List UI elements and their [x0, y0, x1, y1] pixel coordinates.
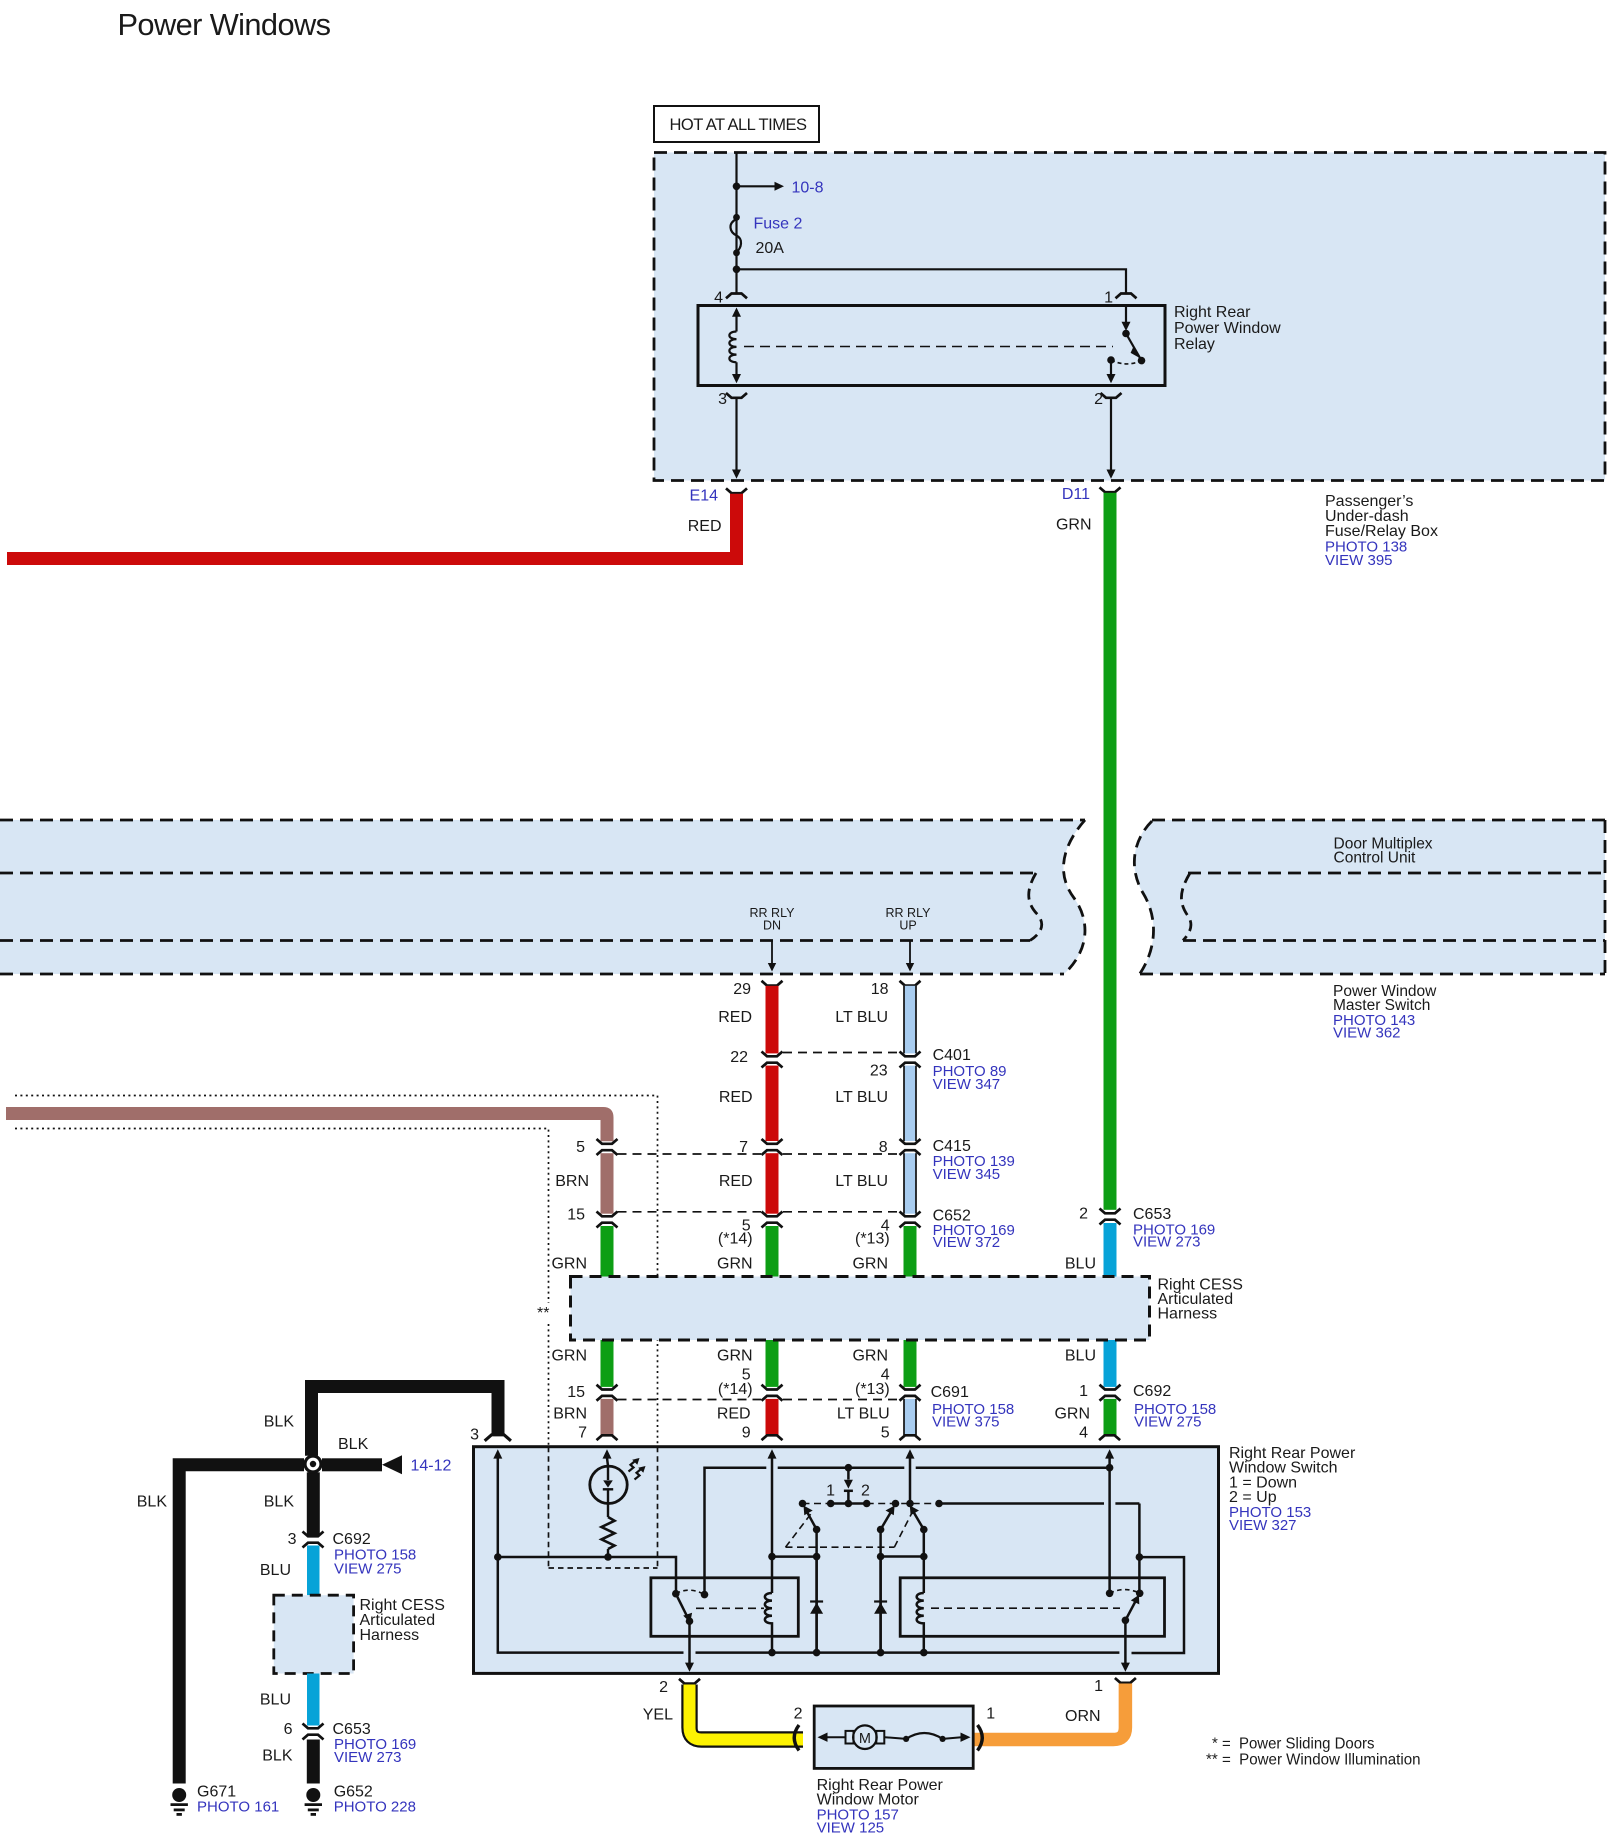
junction diode D2 top — [877, 1553, 885, 1561]
svg-text:29: 29 — [733, 981, 751, 998]
node rocker link right — [863, 1500, 871, 1508]
svg-text:RED: RED — [719, 1173, 753, 1190]
power window illumination dotted outline ** — [15, 1096, 658, 1569]
small Right CESS Articulated Harness box — [274, 1595, 354, 1673]
wire BLK thick: top run to switch pin 3 — [305, 1380, 505, 1456]
svg-text:7: 7 — [739, 1139, 748, 1156]
wire branch to pin 1 — [737, 269, 1127, 293]
up arrows at the five pins — [493, 1449, 1139, 1671]
svg-text:VIEW 275: VIEW 275 — [334, 1561, 402, 1578]
motor M1 internals — [818, 1725, 971, 1749]
wire to 10-8 arrow — [737, 185, 775, 187]
svg-text:BRN: BRN — [555, 1173, 589, 1190]
svg-text:14-12: 14-12 — [411, 1458, 452, 1475]
contact released-position dashed arcs — [676, 1590, 705, 1594]
svg-text:LT BLU: LT BLU — [835, 1009, 888, 1026]
svg-text:UP: UP — [899, 919, 916, 933]
node up-contact common — [1136, 1590, 1144, 1598]
svg-text:BLU: BLU — [260, 1692, 291, 1709]
wire RED column segments — [766, 986, 779, 1435]
rocker bar solid part — [831, 1502, 867, 1505]
lamp (illumination) — [590, 1458, 646, 1517]
svg-text:LT BLU: LT BLU — [835, 1173, 888, 1190]
right relay contact arm — [1125, 1598, 1137, 1621]
svg-text:Power Window: Power Window — [1174, 320, 1281, 337]
node down-contact output — [686, 1617, 694, 1625]
svg-text:BLU: BLU — [260, 1562, 291, 1579]
segment diode2 to right coil — [881, 1555, 924, 1558]
pin1 down arrow — [1121, 1663, 1130, 1672]
pin 2 (switch bottom) — [679, 1679, 700, 1684]
junction rocker common on top bus — [845, 1464, 853, 1472]
junction pin4 on top bus — [1106, 1464, 1114, 1472]
terminal E14 — [726, 488, 747, 493]
junction pin3 bus / lamp branch — [494, 1553, 502, 1561]
connector C401 — [730, 1047, 1006, 1093]
svg-text:1: 1 — [1079, 1383, 1088, 1400]
ground G671 — [171, 1784, 280, 1816]
junction down-coil top — [768, 1553, 776, 1561]
rocker common stem — [847, 1468, 850, 1480]
svg-text:GRN: GRN — [717, 1256, 753, 1273]
svg-text:GRN: GRN — [852, 1348, 888, 1365]
svg-text:Fuse 2: Fuse 2 — [754, 216, 803, 233]
svg-text:VIEW 347: VIEW 347 — [933, 1076, 1001, 1093]
wire BLU below small harness — [307, 1674, 320, 1726]
junction resistor to lamp bus — [604, 1553, 612, 1561]
right contact box (up relay) — [900, 1578, 1164, 1637]
svg-text:18: 18 — [871, 981, 889, 998]
pin 7 branch to lamp — [607, 1458, 608, 1466]
left relay contact arm — [676, 1594, 690, 1622]
svg-text:VIEW 375: VIEW 375 — [932, 1414, 1000, 1431]
svg-text:(*14): (*14) — [718, 1231, 753, 1248]
connector C653 (right green column) — [1079, 1206, 1215, 1251]
pin 3 — [726, 393, 747, 398]
svg-text:C401: C401 — [933, 1047, 971, 1064]
switch box border — [474, 1447, 1219, 1674]
wire BRN thick from left edge — [6, 1107, 614, 1141]
svg-text:M: M — [859, 1731, 871, 1747]
svg-text:2: 2 — [1079, 1206, 1088, 1223]
pin 4 branch (green column) — [1108, 1458, 1111, 1593]
harness box — [571, 1277, 1150, 1341]
svg-text:BLU: BLU — [1065, 1256, 1096, 1273]
svg-text:(*13): (*13) — [855, 1231, 890, 1248]
top horizontal bus — [705, 1468, 767, 1595]
svg-text:VIEW 125: VIEW 125 — [817, 1820, 885, 1837]
svg-text:3: 3 — [288, 1531, 297, 1548]
HOT AT ALL TIMES box — [654, 106, 819, 142]
wire ORN to motor — [975, 1684, 1126, 1740]
svg-text:GRN: GRN — [852, 1256, 888, 1273]
svg-text:8: 8 — [879, 1139, 888, 1156]
wire from box top to fuse — [735, 153, 737, 294]
svg-text:Relay: Relay — [1174, 336, 1215, 353]
junction up-contact feed — [1136, 1553, 1144, 1561]
svg-text:VIEW 372: VIEW 372 — [933, 1234, 1001, 1251]
junction pin5 on rocker line — [906, 1500, 914, 1508]
svg-text:DN: DN — [763, 919, 781, 933]
svg-text:3: 3 — [718, 391, 727, 408]
svg-text:2: 2 — [794, 1706, 803, 1723]
diode 2 line — [879, 1557, 882, 1653]
left contact box (down relay) — [651, 1578, 798, 1637]
svg-text:3: 3 — [470, 1427, 479, 1444]
junction up-coil on ground bus — [920, 1649, 928, 1657]
svg-text:5: 5 — [576, 1139, 585, 1156]
svg-text:Harness: Harness — [360, 1627, 420, 1644]
pin glyphs at switch box top — [485, 1435, 511, 1441]
svg-text:(*13): (*13) — [855, 1381, 890, 1398]
node rocker contact 1 (down) — [799, 1500, 807, 1508]
svg-text:1: 1 — [826, 1483, 835, 1500]
svg-text:LT BLU: LT BLU — [835, 1089, 888, 1106]
svg-text:* = Power Sliding Doors: * = Power Sliding Doors — [1212, 1736, 1375, 1753]
svg-text:HOT AT ALL TIMES: HOT AT ALL TIMES — [670, 116, 808, 134]
svg-text:23: 23 — [870, 1063, 888, 1080]
lamp horizontal branch — [498, 1557, 676, 1594]
pin 9 branch (red column through coil) — [771, 1458, 774, 1593]
wire LT BLU column segments — [904, 986, 917, 1435]
diode 1 — [810, 1602, 823, 1614]
svg-text:10-8: 10-8 — [792, 180, 824, 197]
coil left (down relay) — [765, 1593, 772, 1653]
segment red-coil to diode1 — [772, 1555, 817, 1558]
wire GRN thick from D11 — [1104, 493, 1117, 1210]
svg-text:GRN: GRN — [1054, 1406, 1090, 1423]
terminal D11 — [1100, 487, 1121, 492]
connector C415 — [576, 1138, 1015, 1183]
svg-text:VIEW 395: VIEW 395 — [1325, 552, 1393, 569]
svg-text:5: 5 — [881, 1425, 890, 1442]
pin 18 — [900, 981, 921, 986]
wire BLK stub to 14-12 arrow — [322, 1458, 382, 1471]
svg-text:1: 1 — [986, 1706, 995, 1723]
connector C692 (right green column) — [1079, 1383, 1216, 1431]
svg-text:20A: 20A — [756, 240, 785, 257]
pin2 down arrow — [685, 1663, 694, 1672]
svg-text:VIEW 362: VIEW 362 — [1333, 1025, 1401, 1042]
mid contact arm vertical — [879, 1530, 882, 1653]
coil right (up relay) — [917, 1593, 924, 1653]
relay actuation dashed line — [744, 346, 1113, 348]
junction diode D1 top — [813, 1553, 821, 1561]
svg-text:Power Windows: Power Windows — [118, 7, 332, 42]
svg-text:Control Unit: Control Unit — [1334, 850, 1417, 867]
svg-text:C653: C653 — [1133, 1206, 1171, 1223]
motor box — [814, 1706, 973, 1768]
wire BLU to small harness — [307, 1546, 320, 1596]
node up-contact output — [1122, 1617, 1130, 1625]
svg-text:C692: C692 — [333, 1531, 371, 1548]
svg-text:ORN: ORN — [1065, 1708, 1101, 1725]
connector C653 pin 6 — [303, 1724, 324, 1729]
svg-text:1: 1 — [1094, 1678, 1103, 1695]
svg-text:E14: E14 — [690, 488, 719, 505]
ground G652 — [305, 1784, 416, 1816]
node split to relay pins 4 and 1 — [733, 266, 741, 274]
junction dots in switch — [494, 1464, 1143, 1657]
svg-text:VIEW 273: VIEW 273 — [334, 1749, 402, 1766]
junction diode D1 on ground bus — [813, 1649, 821, 1657]
node down-contact NC — [701, 1591, 709, 1599]
svg-text:BLK: BLK — [137, 1494, 168, 1511]
svg-text:Fuse/Relay Box: Fuse/Relay Box — [1325, 523, 1438, 540]
connector C692 pin 3 — [303, 1532, 324, 1537]
pin 4 — [726, 294, 747, 299]
svg-text:GRN: GRN — [551, 1256, 587, 1273]
svg-text:** = Power Window Illuminatio: ** = Power Window Illumination — [1206, 1752, 1421, 1769]
door multiplex band right part — [1134, 820, 1605, 974]
svg-text:PHOTO 161: PHOTO 161 — [197, 1799, 279, 1816]
node down-contact common — [672, 1590, 680, 1598]
svg-text:2: 2 — [659, 1679, 668, 1696]
switch box fill — [474, 1447, 1219, 1674]
fuse F2 20A — [733, 214, 740, 221]
svg-text:RED: RED — [718, 1009, 752, 1026]
diode 2 — [874, 1602, 887, 1614]
svg-text:C691: C691 — [931, 1384, 969, 1401]
svg-text:7: 7 — [578, 1425, 587, 1442]
node up-contact NC — [1106, 1590, 1114, 1598]
pin 1 — [1116, 294, 1137, 299]
svg-text:15: 15 — [567, 1207, 585, 1224]
pin 1 output — [1124, 1620, 1127, 1668]
svg-text:15: 15 — [567, 1384, 585, 1401]
left contact arm vertical — [815, 1530, 818, 1653]
right contact common riser — [1138, 1504, 1141, 1594]
node rocker center — [845, 1500, 853, 1508]
rocker dashed linkage — [786, 1504, 940, 1548]
connector C691 — [567, 1367, 1014, 1431]
svg-text:GRN: GRN — [717, 1348, 753, 1365]
node rocker contact 2 (up) — [892, 1500, 900, 1508]
svg-text:2: 2 — [1094, 391, 1103, 408]
svg-text:BRN: BRN — [553, 1406, 587, 1423]
wire BLK left branch to G671 — [173, 1458, 304, 1783]
door multiplex band left part — [0, 820, 1085, 974]
svg-text:4: 4 — [1079, 1425, 1088, 1442]
node down-arm bottom — [813, 1526, 821, 1534]
svg-text:LT BLU: LT BLU — [837, 1406, 890, 1423]
svg-text:Right Rear: Right Rear — [1174, 304, 1251, 321]
svg-text:GRN: GRN — [551, 1348, 587, 1365]
junction diode D2 on ground bus — [877, 1649, 885, 1657]
node up-arm2 bottom — [920, 1526, 928, 1534]
junction node (ring) — [305, 1456, 321, 1472]
pin 2 — [1101, 393, 1122, 398]
junction up-coil top — [920, 1553, 928, 1561]
junction down-coil on ground bus — [768, 1649, 776, 1657]
node rocker feed right — [935, 1500, 943, 1508]
svg-text:22: 22 — [730, 1049, 748, 1066]
svg-text:Harness: Harness — [1158, 1306, 1218, 1323]
relay coil — [729, 308, 741, 384]
svg-text:2: 2 — [861, 1483, 870, 1500]
white patch for ** label — [531, 1303, 555, 1323]
svg-text:VIEW 273: VIEW 273 — [1133, 1234, 1201, 1251]
svg-text:BLU: BLU — [1065, 1348, 1096, 1365]
svg-text:BLK: BLK — [262, 1748, 293, 1765]
coil actuation dashed lines — [696, 1607, 764, 1609]
arrow to 14-12 — [382, 1455, 402, 1474]
arm arrowheads — [804, 1506, 813, 1516]
svg-text:BLK: BLK — [338, 1436, 369, 1453]
contact loop to pin 1 — [1132, 1557, 1185, 1653]
node rocker link left — [827, 1500, 835, 1508]
svg-text:BLK: BLK — [264, 1494, 295, 1511]
svg-text:D11: D11 — [1062, 486, 1090, 503]
relay U: Right Rear Power Window Relay box — [698, 306, 1165, 386]
wire GRN segments lt blu column — [904, 1226, 917, 1387]
connector C652 — [567, 1207, 1015, 1252]
wire YEL to motor — [690, 1685, 804, 1740]
motor connector brackets — [794, 1725, 799, 1751]
right coil column — [923, 1530, 926, 1594]
svg-text:6: 6 — [284, 1721, 293, 1738]
pin 2 output — [688, 1621, 691, 1668]
svg-text:**: ** — [537, 1305, 549, 1322]
pin 3 branch: down + long bottom bus — [498, 1458, 684, 1653]
svg-text:4: 4 — [714, 290, 723, 307]
node junction 10-8 branch — [733, 183, 741, 191]
svg-text:RED: RED — [719, 1089, 753, 1106]
switch arm lines (rocker) — [806, 1509, 817, 1529]
wire GRN / BLU right column segments — [1104, 1223, 1117, 1435]
svg-text:C692: C692 — [1133, 1383, 1171, 1400]
svg-text:RED: RED — [717, 1406, 751, 1423]
pin 29 — [762, 981, 783, 986]
pin 5 branch (lt blu column) — [909, 1458, 912, 1504]
wire BLK to G652 — [307, 1740, 320, 1784]
svg-text:YEL: YEL — [643, 1707, 673, 1724]
svg-text:(*14): (*14) — [718, 1381, 753, 1398]
Passenger's Under-dash Fuse/Relay Box (dashed blue box) — [654, 153, 1605, 481]
wire RED thick from E14 — [7, 494, 743, 565]
svg-text:9: 9 — [742, 1425, 751, 1442]
svg-text:GRN: GRN — [1056, 517, 1092, 534]
svg-text:VIEW 327: VIEW 327 — [1229, 1517, 1297, 1534]
node up-arm bottom — [877, 1526, 885, 1534]
relay contact — [1107, 306, 1146, 384]
svg-text:BLK: BLK — [264, 1414, 295, 1431]
wire BLK below junction — [307, 1472, 320, 1536]
svg-text:PHOTO 228: PHOTO 228 — [334, 1799, 416, 1816]
svg-text:RED: RED — [688, 518, 722, 535]
pin 1 (switch bottom) — [1115, 1678, 1136, 1683]
svg-text:1: 1 — [1104, 290, 1113, 307]
svg-text:VIEW 275: VIEW 275 — [1134, 1414, 1202, 1431]
resistor R (lamp dropping) — [602, 1517, 615, 1557]
diode 1 line — [815, 1557, 818, 1653]
rocker selector arrow — [844, 1480, 853, 1489]
rocker right feed — [939, 1502, 1104, 1505]
svg-text:VIEW 345: VIEW 345 — [933, 1166, 1001, 1183]
wire GRN segments red column — [766, 1226, 779, 1387]
